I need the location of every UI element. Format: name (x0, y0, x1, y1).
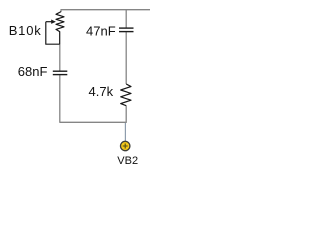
wire bottom: capacitor C1 bottom down and right to junction (60, 75, 126, 122)
svg-text:47nF: 47nF (86, 23, 116, 38)
capacitor C2 bottom plate (119, 31, 134, 33)
potentiometer R1 wiper arrowhead (51, 20, 56, 24)
svg-text:B10k: B10k (9, 23, 42, 38)
probe node VB2 circle (121, 141, 130, 150)
wire between capacitor C2 bottom and resistor R2 top (125, 32, 127, 84)
potentiometer R1 wiper-to-bottom loop wire (46, 22, 60, 45)
capacitor C1 top plate (53, 70, 68, 72)
wire resistor R2 bottom to junction (125, 106, 127, 123)
svg-text:VB2: VB2 (117, 155, 138, 167)
resistor R2 zigzag body (121, 84, 131, 106)
wire left branch: pot bottom to capacitor C1 top (59, 44, 61, 70)
svg-text:68nF: 68nF (18, 64, 48, 79)
probe node VB2 plus sign (123, 144, 128, 149)
svg-text:4.7k: 4.7k (89, 84, 114, 99)
capacitor C2 top plate (119, 27, 134, 29)
wire right branch: rail down to capacitor C2 top (125, 10, 127, 28)
capacitor C1 bottom plate (53, 74, 68, 76)
wire top rail from potentiometer top to right edge (61, 10, 150, 12)
potentiometer R1 wiper arrow shaft (46, 21, 52, 23)
wire probe stub from junction to probe VB2 (124, 123, 126, 142)
potentiometer R1 zigzag body (56, 12, 64, 45)
